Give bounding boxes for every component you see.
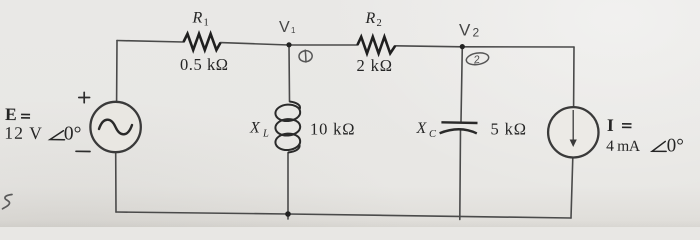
svg-text:2: 2 xyxy=(377,18,382,29)
svg-text:X: X xyxy=(249,120,261,137)
svg-text:0.5 kΩ: 0.5 kΩ xyxy=(180,55,228,74)
svg-text:5 kΩ: 5 kΩ xyxy=(491,120,527,139)
svg-text:R: R xyxy=(192,10,203,27)
svg-text:2: 2 xyxy=(473,26,480,40)
svg-text:2 kΩ: 2 kΩ xyxy=(357,56,393,75)
svg-text:C: C xyxy=(429,129,437,140)
svg-text:0°: 0° xyxy=(64,123,82,144)
svg-text:V: V xyxy=(279,19,290,36)
svg-text:12 V: 12 V xyxy=(4,123,42,144)
svg-text:L: L xyxy=(262,129,269,140)
svg-text:V: V xyxy=(459,21,471,40)
svg-text:I: I xyxy=(607,115,614,135)
svg-text:1: 1 xyxy=(291,26,296,35)
svg-text:1: 1 xyxy=(204,18,209,29)
svg-text:X: X xyxy=(416,120,428,137)
svg-text:R: R xyxy=(365,10,376,27)
svg-text:E: E xyxy=(5,104,17,124)
svg-text:0°: 0° xyxy=(667,135,684,156)
svg-text:4 mA: 4 mA xyxy=(606,138,641,155)
svg-text:10 kΩ: 10 kΩ xyxy=(310,120,355,139)
